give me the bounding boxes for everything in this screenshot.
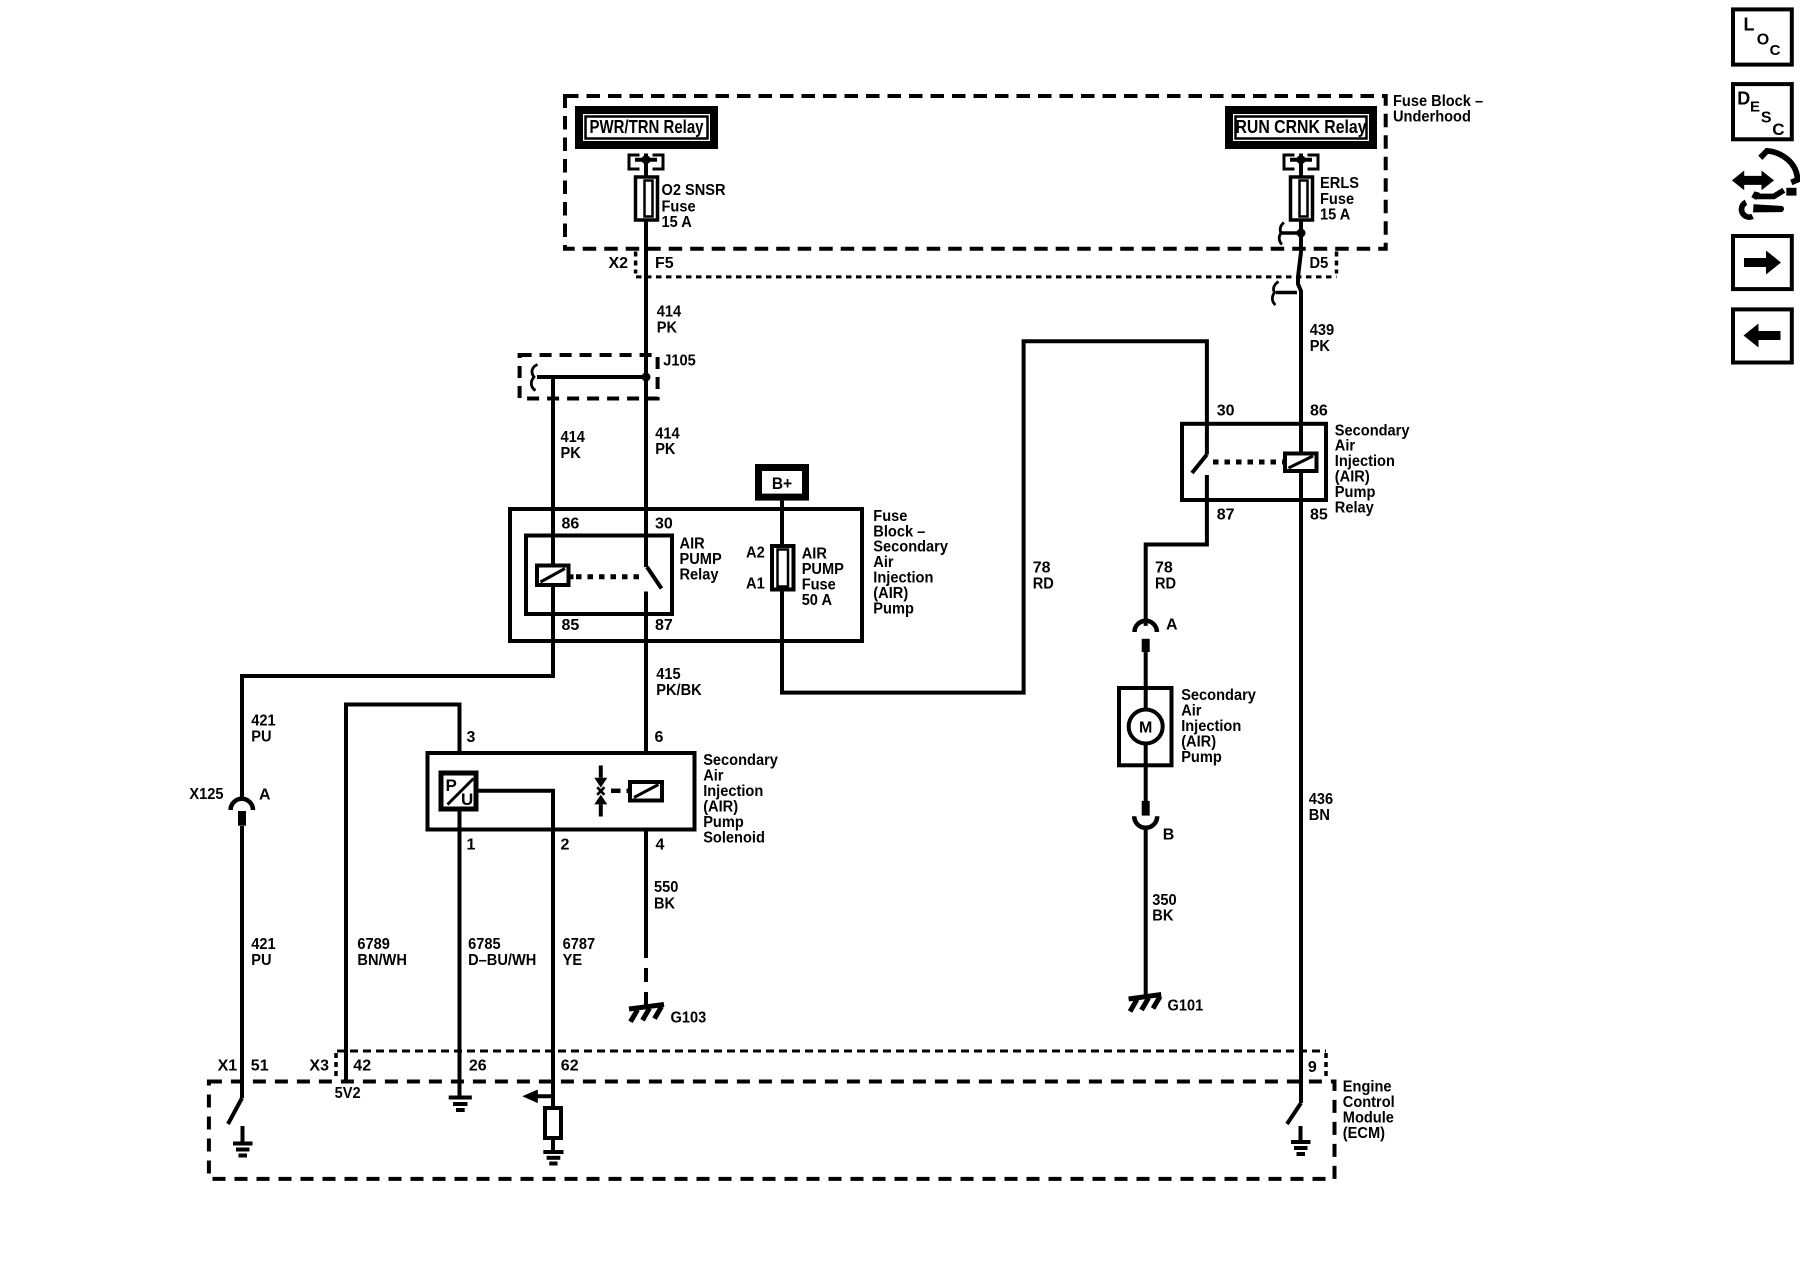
wire 415 PK/BK relay 87 to solenoid 6 — [644, 614, 648, 753]
fuse block secondary AIR big box — [510, 509, 862, 641]
svg-text:F5: F5 — [655, 255, 674, 272]
svg-text:C: C — [1770, 42, 1781, 59]
svg-text:42: 42 — [353, 1058, 371, 1075]
junction dot J105 — [642, 373, 651, 382]
svg-text:Pump: Pump — [873, 600, 914, 617]
fuse block underhood dashed box — [565, 96, 1386, 249]
svg-text:550: 550 — [654, 879, 678, 896]
svg-text:Control: Control — [1343, 1094, 1395, 1111]
svg-text:Fuse Block –: Fuse Block – — [1393, 93, 1483, 110]
B+ box — [755, 464, 809, 501]
label Fuse Block - Secondary Air Injection (AIR) Pump — [873, 508, 948, 617]
fuse cavity bracket O2 SNSR — [629, 154, 663, 171]
svg-text:85: 85 — [562, 617, 580, 634]
svg-text:J105: J105 — [663, 353, 696, 370]
svg-text:G103: G103 — [671, 1010, 707, 1027]
svg-text:86: 86 — [1310, 402, 1328, 419]
secondary AIR pump relay box — [1182, 424, 1326, 500]
wire J105 horizontal — [537, 375, 646, 379]
svg-text:414: 414 — [561, 429, 585, 446]
relay coil right relay — [1285, 454, 1317, 472]
svg-text:AIR: AIR — [680, 536, 706, 553]
connector A — [1135, 621, 1157, 652]
svg-text:(ECM): (ECM) — [1343, 1125, 1385, 1142]
svg-text:PUMP: PUMP — [680, 551, 722, 568]
svg-text:RD: RD — [1033, 576, 1054, 593]
svg-text:Pump: Pump — [1181, 749, 1222, 766]
svg-text:6787: 6787 — [563, 936, 596, 953]
svg-text:1: 1 — [467, 837, 476, 854]
ECM fine dashed line — [337, 1050, 1326, 1053]
svg-text:30: 30 — [1217, 402, 1235, 419]
svg-text:Injection: Injection — [1181, 718, 1241, 735]
ground G103 — [629, 1005, 664, 1022]
relay contact blade and stub right relay — [1192, 424, 1207, 500]
solenoid coil dash link — [611, 789, 621, 794]
svg-text:30: 30 — [655, 516, 673, 533]
svg-text:Relay: Relay — [680, 567, 719, 584]
svg-text:415: 415 — [656, 666, 680, 683]
svg-text:Fuse: Fuse — [802, 577, 836, 594]
svg-text:Underhood: Underhood — [1393, 109, 1471, 126]
wire 6785 D-BU/WH solenoid 1 to ECM 26 — [458, 809, 462, 1096]
wire ERLS fuse lead top — [1299, 160, 1303, 178]
svg-text:A1: A1 — [746, 575, 765, 592]
fuse AIR PUMP 50 A — [772, 546, 794, 590]
splice clip hook J105 — [531, 365, 537, 391]
ground at pin 51 — [233, 1144, 253, 1156]
fuse cavity bracket ERLS — [1284, 154, 1318, 171]
svg-text:PU: PU — [251, 952, 271, 969]
svg-text:RUN CRNK Relay: RUN CRNK Relay — [1236, 117, 1367, 137]
svg-text:A: A — [259, 786, 271, 803]
svg-text:B+: B+ — [772, 474, 792, 493]
svg-text:U: U — [461, 790, 473, 809]
svg-text:P: P — [446, 776, 457, 795]
AIR pump motor — [1119, 688, 1172, 765]
fuse ERLS 15 A — [1291, 177, 1313, 220]
svg-text:ERLS: ERLS — [1320, 175, 1359, 192]
svg-text:15 A: 15 A — [1320, 206, 1351, 223]
wire 78 RD relay 87 to connector A — [1146, 500, 1207, 626]
svg-text:78: 78 — [1155, 560, 1173, 577]
svg-text:421: 421 — [251, 713, 275, 730]
wire pump to connector B — [1144, 765, 1148, 801]
svg-text:S: S — [1761, 110, 1772, 127]
svg-text:BN: BN — [1309, 807, 1330, 824]
svg-text:Air: Air — [703, 768, 723, 785]
wire 6789 BN/WH solenoid 3 to ECM 42 — [346, 705, 460, 1082]
relay contact blade and stub — [647, 567, 662, 589]
AIR PUMP relay box — [526, 536, 672, 615]
svg-text:(AIR): (AIR) — [1181, 734, 1216, 751]
RUN CRNK Relay header box — [1225, 106, 1377, 149]
ground at pin 26 — [449, 1098, 472, 1111]
svg-text:PWR/TRN Relay: PWR/TRN Relay — [590, 117, 704, 137]
icon vehicle double arrow — [1732, 151, 1798, 217]
separator D5 — [1335, 252, 1339, 274]
svg-text:2: 2 — [561, 837, 570, 854]
svg-text:51: 51 — [251, 1058, 269, 1075]
svg-text:A2: A2 — [746, 545, 765, 562]
svg-text:86: 86 — [562, 516, 580, 533]
svg-text:PK: PK — [655, 441, 676, 458]
svg-text:Engine: Engine — [1343, 1079, 1392, 1096]
svg-text:YE: YE — [563, 952, 583, 969]
svg-text:85: 85 — [1310, 506, 1328, 523]
svg-text:87: 87 — [655, 617, 673, 634]
svg-text:421: 421 — [251, 936, 275, 953]
svg-text:9: 9 — [1308, 1059, 1317, 1076]
svg-text:E: E — [1750, 98, 1760, 115]
wire resistor to ground — [551, 1138, 555, 1151]
svg-text:414: 414 — [655, 425, 679, 442]
svg-text:M: M — [1139, 719, 1152, 736]
svg-text:4: 4 — [656, 837, 665, 854]
svg-text:PK: PK — [657, 319, 678, 336]
svg-text:414: 414 — [657, 304, 681, 321]
icon DESC box — [1733, 84, 1792, 139]
wire 6787 YE solenoid 2 to ECM 62 — [476, 791, 553, 1110]
svg-text:AIR: AIR — [802, 546, 828, 563]
wire 414 PK left branch J105 to relay 86 and 85 down to corner — [242, 377, 553, 800]
resistor at pin 62 — [545, 1108, 561, 1138]
fuse O2 SNSR 15 A — [636, 177, 658, 220]
label Secondary Air Injection (AIR) Pump Relay — [1335, 422, 1410, 516]
wire 550 BK solenoid 4 to G103 — [644, 830, 648, 945]
separator X2/F5 — [634, 252, 638, 274]
relay dashed link — [576, 574, 643, 579]
svg-text:Solenoid: Solenoid — [703, 830, 765, 847]
svg-text:BK: BK — [654, 895, 676, 912]
solenoid valve symbol — [594, 766, 607, 817]
svg-text:BN/WH: BN/WH — [357, 952, 407, 969]
svg-text:BK: BK — [1152, 908, 1174, 925]
svg-text:350: 350 — [1152, 892, 1176, 909]
ECM output arrow at pin 62 — [522, 1090, 554, 1104]
PWR/TRN Relay header box — [575, 106, 718, 149]
svg-text:6: 6 — [655, 729, 664, 746]
svg-text:15 A: 15 A — [662, 214, 693, 231]
svg-text:5V2: 5V2 — [335, 1085, 361, 1102]
svg-text:PU: PU — [251, 728, 271, 745]
label Engine Control Module (ECM) — [1343, 1079, 1395, 1143]
icon left arrow box — [1733, 309, 1792, 362]
svg-text:D: D — [1737, 88, 1750, 108]
ECM dashed box — [209, 1082, 1335, 1179]
svg-text:PUMP: PUMP — [802, 561, 844, 578]
clip hook upper D5 — [1279, 223, 1301, 245]
svg-text:6789: 6789 — [357, 936, 390, 953]
svg-text:D5: D5 — [1310, 255, 1329, 272]
separator X3 — [334, 1053, 338, 1078]
wire F5 fuse lead top — [644, 160, 648, 178]
wire 30 branch into left relay contact — [644, 377, 648, 567]
svg-text:PK: PK — [1310, 338, 1331, 355]
svg-text:26: 26 — [469, 1058, 487, 1075]
svg-text:Secondary: Secondary — [1181, 687, 1256, 704]
connector strip bottom fine dashed line — [636, 275, 1337, 278]
pressure sensor P/U box — [441, 773, 476, 809]
label AIR PUMP Relay — [680, 536, 722, 584]
svg-text:50 A: 50 A — [802, 592, 833, 609]
svg-text:Module: Module — [1343, 1110, 1394, 1127]
ground at pin 9 — [1291, 1142, 1311, 1154]
splice J105 dashed box — [520, 355, 658, 399]
svg-text:62: 62 — [561, 1058, 579, 1075]
svg-text:X1: X1 — [218, 1058, 238, 1075]
svg-text:PK/BK: PK/BK — [656, 682, 702, 699]
svg-text:B: B — [1163, 827, 1175, 844]
svg-text:3: 3 — [467, 729, 476, 746]
wire 436 BN relay 85 to ECM 9 — [1299, 471, 1303, 1103]
svg-text:D–BU/WH: D–BU/WH — [468, 952, 536, 969]
svg-text:Pump: Pump — [703, 814, 744, 831]
svg-text:436: 436 — [1309, 791, 1333, 808]
svg-text:87: 87 — [1217, 506, 1235, 523]
label Secondary Air Injection (AIR) Pump Solenoid — [703, 752, 778, 847]
connector B — [1134, 801, 1157, 828]
wire 439 PK ERLS fuse to right relay 86 — [1298, 220, 1301, 454]
separator 9 — [1324, 1053, 1328, 1078]
svg-text:Air: Air — [1181, 703, 1201, 720]
clip hook lower D5 — [1272, 282, 1297, 306]
svg-text:O2 SNSR: O2 SNSR — [662, 182, 726, 199]
solenoid box — [428, 753, 695, 830]
ECM internal switch to ground at pin 51 — [228, 1098, 243, 1144]
svg-text:O: O — [1757, 32, 1769, 49]
wire X125 to ECM 51 upper segment — [240, 826, 244, 1098]
svg-text:Fuse: Fuse — [1320, 191, 1354, 208]
relay dashed link right relay — [1213, 460, 1285, 465]
svg-text:X2: X2 — [609, 255, 629, 272]
svg-text:L: L — [1744, 15, 1755, 35]
icon LOC box — [1733, 9, 1792, 64]
ground G101 — [1129, 995, 1162, 1012]
svg-text:Injection: Injection — [703, 783, 763, 800]
connector X125 A — [231, 799, 253, 826]
svg-text:PK: PK — [561, 445, 582, 462]
svg-text:A: A — [1166, 617, 1178, 634]
svg-text:C: C — [1772, 120, 1784, 139]
relay coil AIR PUMP — [537, 566, 574, 586]
svg-text:Relay: Relay — [1335, 499, 1374, 516]
svg-text:RD: RD — [1155, 576, 1176, 593]
svg-text:6785: 6785 — [468, 936, 501, 953]
svg-text:X125: X125 — [189, 786, 223, 803]
label AIR PUMP Fuse 50 A — [802, 546, 844, 610]
label Secondary Air Injection (AIR) Pump — [1181, 687, 1256, 766]
junction dot below ERLS fuse — [1297, 229, 1306, 238]
icon right arrow box — [1733, 236, 1792, 289]
solenoid coil — [627, 782, 663, 801]
svg-text:439: 439 — [1310, 322, 1334, 339]
svg-text:X3: X3 — [309, 1058, 329, 1075]
wire 414 PK F5 to J105 — [644, 220, 648, 377]
wire B+ to AIR PUMP fuse — [780, 501, 784, 546]
ECM internal switch to ground at pin 9 — [1287, 1103, 1301, 1142]
svg-text:G101: G101 — [1168, 998, 1204, 1015]
svg-text:(AIR): (AIR) — [703, 799, 738, 816]
wire 350 BK connector B to G101 — [1144, 827, 1148, 995]
ground below resistor — [543, 1152, 563, 1164]
wire 78 RD from fuse A1 to right relay 30 — [782, 341, 1207, 692]
wire connector A to pump — [1144, 652, 1148, 688]
svg-text:78: 78 — [1033, 560, 1051, 577]
svg-text:Secondary: Secondary — [703, 752, 778, 769]
